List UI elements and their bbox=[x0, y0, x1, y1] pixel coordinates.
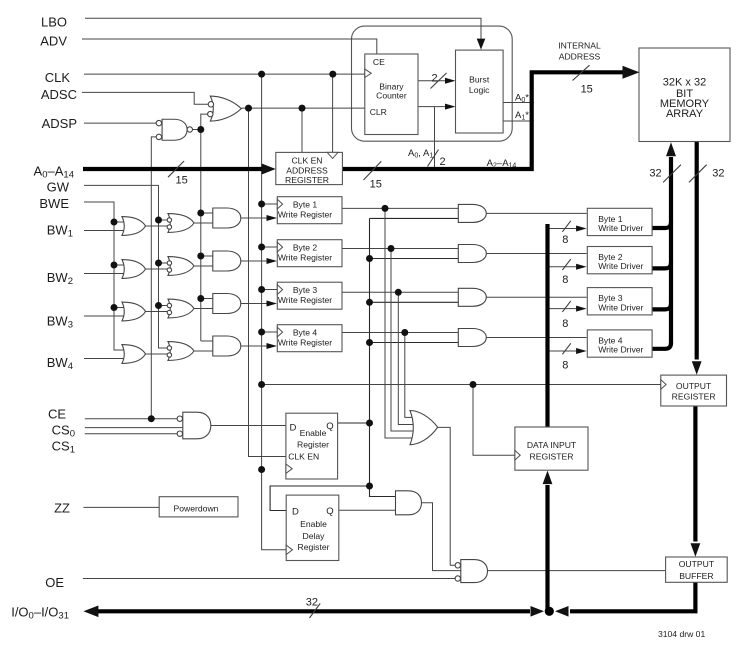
clock triangle reg2 bbox=[277, 242, 282, 252]
byte2 write register bbox=[277, 240, 342, 267]
data input register box bbox=[515, 427, 588, 470]
clock triangle address register bbox=[327, 152, 338, 158]
svg-text:Delay: Delay bbox=[303, 531, 326, 541]
wire CE/CS AND out to enable register D bbox=[211, 425, 286, 427]
wire G1 output to node, up to G2, down to byte AND column bbox=[192, 114, 207, 341]
wire BW1 bbox=[84, 230, 125, 232]
svg-text:CLK EN: CLK EN bbox=[288, 451, 319, 461]
svg-text:REGISTER: REGISTER bbox=[285, 175, 329, 185]
svg-text:Write Register: Write Register bbox=[278, 209, 332, 219]
nand-gate OE output enable bbox=[455, 560, 487, 583]
wire OR1 out row1 bbox=[145, 225, 167, 227]
bus output buffer to I/O node bbox=[570, 580, 695, 611]
wire enable branch row2 bbox=[370, 258, 459, 260]
node clken/vert bbox=[245, 105, 252, 112]
bus write data vertical to memory array bbox=[669, 157, 673, 344]
svg-text:3104 drw 01: 3104 drw 01 bbox=[658, 629, 706, 639]
svg-text:Logic: Logic bbox=[469, 85, 490, 95]
wire data tap row2 bbox=[548, 266, 579, 268]
arrowhead into output buffer bbox=[691, 543, 701, 557]
wire clock branch to data input register bbox=[473, 385, 515, 456]
arrowhead reg D r1 bbox=[267, 215, 278, 221]
arrowhead tap r2 bbox=[576, 264, 587, 270]
svg-text:Powerdown: Powerdown bbox=[174, 504, 219, 514]
wire clkgate branch row3 bbox=[201, 298, 213, 300]
node BWE r2 bbox=[111, 262, 118, 269]
and-gate write enable row2 bbox=[458, 245, 486, 263]
svg-text:Counter: Counter bbox=[376, 91, 407, 101]
wire G3 out row3 bbox=[194, 308, 213, 310]
or-gate row3 col1 bbox=[122, 302, 146, 321]
clock triangle enable register bbox=[286, 464, 292, 473]
node clkgate r3 bbox=[197, 295, 204, 302]
svg-text:Byte 2: Byte 2 bbox=[293, 242, 318, 252]
bus A0-A14 input bbox=[83, 167, 263, 171]
slash 8 r4 bbox=[562, 343, 570, 354]
arrowhead counter upper out bbox=[445, 78, 456, 84]
svg-text:Write Driver: Write Driver bbox=[598, 345, 643, 355]
bus driver1 out elbow bbox=[652, 222, 671, 228]
svg-text:REGISTER: REGISTER bbox=[530, 452, 574, 462]
wire BW4 bbox=[84, 358, 125, 360]
bus driver4 out elbow bbox=[652, 343, 671, 349]
arrowhead reg D r3 bbox=[267, 301, 278, 307]
memory array U3 bbox=[639, 48, 730, 142]
svg-text:REGISTER: REGISTER bbox=[672, 392, 716, 402]
wire G2 output to binary counter CLR bbox=[242, 107, 365, 109]
wire BW3 bbox=[84, 315, 125, 317]
wire CS0 bbox=[85, 427, 183, 429]
node ER clk bbox=[258, 466, 265, 473]
svg-text:BWE: BWE bbox=[39, 196, 69, 211]
node regclk r4 bbox=[258, 329, 265, 336]
svg-text:OUTPUT: OUTPUT bbox=[679, 559, 715, 569]
wire OR1 out row2 bbox=[145, 268, 167, 270]
wire reg4 Q bbox=[342, 332, 458, 334]
wire clock line to output/data registers bbox=[262, 384, 661, 386]
svg-text:Write Register: Write Register bbox=[278, 337, 332, 347]
svg-text:Register: Register bbox=[297, 440, 329, 450]
wire ADSC bbox=[82, 92, 208, 104]
output buffer box bbox=[666, 557, 728, 582]
svg-text:ARRAY: ARRAY bbox=[666, 108, 704, 120]
svg-text:32K x 32: 32K x 32 bbox=[663, 77, 706, 89]
svg-text:D: D bbox=[292, 507, 299, 518]
arrowhead from output buffer into node bbox=[555, 606, 569, 617]
wire data tap row4 bbox=[548, 350, 579, 352]
wire reg2 Q down to OR bbox=[391, 249, 416, 432]
or-gate big write detect bbox=[410, 411, 438, 445]
svg-text:Byte 1: Byte 1 bbox=[293, 199, 318, 209]
node en r3 bbox=[366, 299, 373, 306]
wire OR1 out row3 bbox=[145, 311, 167, 313]
svg-text:32: 32 bbox=[712, 167, 724, 179]
nor-gate row1 col2 bbox=[167, 214, 194, 233]
svg-text:Enable: Enable bbox=[300, 519, 327, 529]
wire AND2 out row4 bbox=[486, 337, 586, 339]
wire enable branch row1 bbox=[370, 217, 459, 219]
clock triangle data input register bbox=[515, 450, 520, 460]
wire A0 A1 from address bus bbox=[434, 107, 436, 169]
arrowhead reg D r4 bbox=[267, 343, 278, 349]
and-gate enable/delay bbox=[396, 491, 422, 515]
wire CE feedback up to G1 bbox=[151, 137, 156, 419]
svg-text:ADDRESS: ADDRESS bbox=[286, 165, 328, 175]
node EDR D bbox=[366, 483, 373, 490]
bus driver3 out elbow bbox=[652, 304, 671, 310]
wire data tap row3 bbox=[548, 308, 579, 310]
svg-text:8: 8 bbox=[562, 234, 568, 246]
svg-text:Write Driver: Write Driver bbox=[598, 261, 643, 271]
arrowhead into output register bbox=[692, 361, 702, 375]
wire BW2 bbox=[84, 273, 125, 275]
node G1 out bbox=[197, 126, 204, 133]
slash 15 address out bbox=[364, 161, 382, 180]
arrowhead tap r4 bbox=[576, 348, 587, 354]
svg-text:15: 15 bbox=[370, 179, 382, 191]
wire CLK bbox=[84, 73, 365, 75]
node CLK/addrclk bbox=[329, 71, 336, 78]
svg-text:15: 15 bbox=[175, 174, 187, 186]
wire AND out to reg D row3 bbox=[241, 303, 269, 305]
arrowhead LBO into burst logic bbox=[477, 39, 486, 50]
enable register box bbox=[286, 413, 338, 479]
svg-text:8: 8 bbox=[562, 318, 568, 330]
slash 32 write bbox=[663, 165, 681, 183]
wire enable branch row3 bbox=[370, 301, 459, 303]
bus data-in vertical upper bbox=[545, 224, 549, 427]
wire enable AND out bbox=[422, 503, 461, 571]
wire BWE branch row3 bbox=[114, 307, 125, 309]
node regclk r1 bbox=[258, 201, 265, 208]
byte1 write driver bbox=[587, 208, 652, 235]
node clkgate r1 bbox=[197, 210, 204, 217]
svg-text:ADSC: ADSC bbox=[41, 87, 77, 102]
slash 15 A0-A14 bbox=[168, 161, 184, 177]
wire reg clock row1 bbox=[262, 203, 277, 205]
node regclk r2 bbox=[258, 244, 265, 251]
wire G3 out row2 bbox=[194, 265, 213, 267]
node en r2 bbox=[366, 255, 373, 262]
and-gate CE/CS0/CS1 bbox=[177, 412, 211, 439]
svg-text:CE: CE bbox=[48, 407, 66, 422]
wire AND out to reg D row1 bbox=[241, 217, 269, 219]
clock triangle enable delay register bbox=[286, 545, 292, 554]
arrowhead A0-A14 into address register bbox=[262, 164, 276, 175]
svg-text:Q: Q bbox=[326, 506, 333, 517]
svg-text:15: 15 bbox=[581, 84, 593, 96]
node CE line bbox=[148, 415, 155, 422]
wire BWE branch row1 bbox=[114, 221, 125, 223]
node CLK/clkvert bbox=[258, 71, 265, 78]
svg-text:32: 32 bbox=[306, 597, 318, 609]
wire enable register Q bbox=[338, 422, 370, 424]
arrowhead I/O right into node bbox=[531, 606, 545, 617]
arrowhead tap r3 bbox=[576, 306, 587, 312]
clock triangle reg1 bbox=[277, 199, 282, 209]
wire G3 out row4 bbox=[194, 350, 213, 352]
wire BWE bbox=[84, 202, 125, 350]
binary counter U1 bbox=[365, 54, 418, 135]
svg-text:Byte 4: Byte 4 bbox=[293, 327, 318, 337]
clock triangle output register bbox=[661, 380, 666, 390]
wire counter out upper bbox=[418, 80, 449, 82]
svg-text:Burst: Burst bbox=[469, 75, 490, 85]
slash 8 r1 bbox=[562, 221, 570, 232]
wire A1* bbox=[503, 120, 534, 122]
svg-text:OE: OE bbox=[45, 575, 64, 590]
nand-gate G1 ADSP/CE bbox=[156, 119, 192, 140]
svg-text:ZZ: ZZ bbox=[54, 500, 70, 515]
byte4 write driver bbox=[587, 330, 652, 357]
svg-text:2: 2 bbox=[440, 156, 446, 168]
node BWE r1 bbox=[111, 219, 118, 226]
or-gate row2 col1 bbox=[122, 260, 146, 279]
wire clock-enable vertical to enable register CLK EN bbox=[249, 108, 286, 456]
svg-text:CE: CE bbox=[373, 57, 385, 67]
wire clock-enable to address register bbox=[301, 108, 303, 152]
slash 2 A0A1 bbox=[428, 150, 439, 167]
arrowhead write data into array bbox=[666, 142, 676, 156]
nor-gate row3 col2 bbox=[167, 299, 194, 318]
svg-text:Write Driver: Write Driver bbox=[598, 302, 643, 312]
bus I/O line bbox=[98, 609, 530, 613]
and-gate write enable row4 bbox=[458, 329, 486, 347]
wire BWE branch row2 bbox=[114, 264, 125, 266]
node regclk r3 bbox=[258, 286, 265, 293]
clock triangle binary counter bbox=[365, 69, 371, 77]
or-gate row4 col1 bbox=[122, 345, 146, 364]
slash 2 counter bbox=[431, 73, 447, 89]
address register U4 bbox=[276, 152, 343, 184]
clock triangle reg4 bbox=[277, 327, 282, 337]
svg-text:BUFFER: BUFFER bbox=[679, 571, 713, 581]
svg-text:Enable: Enable bbox=[300, 428, 327, 438]
arrowhead reg D r2 bbox=[267, 258, 278, 264]
svg-text:ADSP: ADSP bbox=[42, 116, 77, 131]
node GW r3 bbox=[155, 302, 162, 309]
node Q1 bbox=[382, 205, 389, 212]
and-gate row2 col3 bbox=[213, 251, 241, 271]
svg-text:CLK: CLK bbox=[45, 70, 71, 85]
or-gate G2 ADSC/ADSP bbox=[208, 96, 242, 121]
wire enable vertical bbox=[370, 218, 396, 496]
bus driver2 out elbow bbox=[652, 263, 671, 269]
wire reg4 Q down to OR bbox=[405, 333, 414, 418]
and-gate row4 col3 bbox=[213, 336, 241, 356]
and-gate write enable row3 bbox=[458, 288, 486, 306]
and-gate write enable row1 bbox=[458, 204, 486, 222]
and-gate row1 col3 bbox=[213, 208, 241, 228]
wire GW branch row3 bbox=[159, 305, 168, 307]
byte3 write driver bbox=[587, 288, 652, 315]
wire reg3 Q down to OR bbox=[398, 292, 416, 424]
or-gate row1 col1 bbox=[122, 217, 146, 236]
node GW r1 bbox=[155, 217, 162, 224]
wire ADSP bbox=[84, 122, 156, 124]
counter/burst enclosure (rounded) bbox=[352, 26, 513, 141]
clock triangle reg3 bbox=[277, 285, 282, 295]
bus data-in vertical lower bbox=[545, 485, 549, 611]
node I/O join bbox=[545, 607, 554, 616]
wire GW bbox=[84, 185, 167, 348]
arrowhead tap r1 bbox=[576, 226, 587, 232]
svg-text:8: 8 bbox=[562, 360, 568, 372]
node Q4 bbox=[401, 329, 408, 336]
svg-text:Byte 3: Byte 3 bbox=[293, 285, 318, 295]
wire big OR out to OE gate bbox=[438, 427, 456, 565]
slash 15 internal address bbox=[573, 65, 590, 80]
wire GW branch row2 bbox=[159, 262, 168, 264]
wire reg3 Q bbox=[342, 291, 458, 293]
wire LBO bbox=[85, 18, 481, 41]
wire clkgate branch row2 bbox=[201, 255, 213, 257]
node Q2 bbox=[388, 245, 395, 252]
powerdown box bbox=[159, 497, 238, 517]
enable delay register box bbox=[286, 495, 339, 560]
wire counter out lower bbox=[418, 106, 449, 108]
svg-text:Write Register: Write Register bbox=[278, 252, 332, 262]
wire AND2 out row3 bbox=[486, 296, 586, 298]
wire reg clock row2 bbox=[262, 246, 277, 248]
bus output register to output buffer bbox=[693, 406, 697, 542]
svg-text:Q: Q bbox=[326, 421, 333, 432]
svg-text:ADDRESS: ADDRESS bbox=[559, 51, 601, 61]
wire enable branch row4 bbox=[370, 342, 459, 344]
wire clkgate branch row4 bbox=[201, 340, 213, 342]
slash 8 r3 bbox=[562, 301, 570, 312]
bus A2-A14 and internal address bbox=[342, 72, 623, 169]
arrowhead I/O far left bbox=[83, 606, 98, 618]
svg-text:OUTPUT: OUTPUT bbox=[676, 381, 712, 391]
wire CE bbox=[85, 418, 177, 420]
byte2 write driver bbox=[587, 247, 652, 274]
svg-text:CLK EN: CLK EN bbox=[291, 155, 322, 165]
wire clkgate branch row1 bbox=[201, 212, 213, 214]
svg-text:Register: Register bbox=[298, 542, 330, 552]
node clkdist bbox=[258, 381, 265, 388]
arrowhead counter lower out bbox=[445, 104, 456, 110]
wire A0* bbox=[503, 102, 534, 104]
wire OE bbox=[83, 578, 455, 580]
wire data tap row1 bbox=[548, 228, 579, 230]
nor-gate row2 col2 bbox=[167, 257, 194, 276]
wire AND2 out row2 bbox=[486, 253, 586, 255]
wire AND out to reg D row4 bbox=[241, 345, 269, 347]
svg-text:LBO: LBO bbox=[41, 15, 67, 30]
node ER Q bbox=[366, 420, 373, 427]
wire ADV bbox=[82, 39, 377, 54]
wire reg1 Q down to OR bbox=[385, 208, 414, 438]
byte1 write register bbox=[277, 197, 342, 224]
node BWE r3 bbox=[111, 304, 118, 311]
svg-text:2: 2 bbox=[431, 73, 437, 85]
wire reg2 Q bbox=[342, 248, 458, 250]
node clken/addrreg bbox=[299, 105, 306, 112]
slash 32 I/O bbox=[310, 603, 321, 618]
output register box bbox=[661, 375, 727, 406]
wire OE gate out to output buffer bbox=[488, 570, 666, 572]
wire G3 out row1 bbox=[194, 222, 213, 224]
svg-text:8: 8 bbox=[562, 274, 568, 286]
svg-text:DATA INPUT: DATA INPUT bbox=[527, 440, 577, 450]
svg-text:Write Register: Write Register bbox=[278, 295, 332, 305]
wire AND out to reg D row2 bbox=[241, 260, 269, 262]
svg-text:Write Driver: Write Driver bbox=[598, 223, 643, 233]
node DIR clk bbox=[470, 381, 477, 388]
svg-text:GW: GW bbox=[47, 180, 70, 195]
wire enable delay D path bbox=[270, 486, 369, 511]
slash 32 read bbox=[689, 165, 707, 183]
wire reg1 Q bbox=[342, 207, 458, 209]
node clkgate r2 bbox=[197, 253, 204, 260]
svg-text:32: 32 bbox=[649, 167, 661, 179]
svg-text:INTERNAL: INTERNAL bbox=[558, 41, 601, 51]
burst logic U2 bbox=[456, 50, 504, 133]
wire ZZ bbox=[83, 506, 159, 508]
wire enable delay Q bbox=[339, 509, 396, 511]
wire reg clock row4 bbox=[262, 331, 277, 333]
arrowhead into data input register bbox=[543, 471, 553, 485]
wire CS1 bbox=[85, 433, 177, 435]
wire GW branch row1 bbox=[159, 219, 168, 221]
svg-text:D: D bbox=[290, 423, 297, 434]
wire OR1 out row4 bbox=[145, 353, 167, 355]
arrowhead internal address into array bbox=[623, 66, 640, 79]
nor-gate row4 col2 bbox=[167, 342, 194, 361]
byte4 write register bbox=[277, 325, 342, 352]
byte3 write register bbox=[277, 282, 342, 309]
wire AND2 out row1 bbox=[486, 212, 586, 214]
wire CLK to address register clock bbox=[332, 74, 334, 152]
wire CLK vertical distribution bbox=[262, 74, 287, 550]
node Q3 bbox=[395, 289, 402, 296]
node GW r2 bbox=[155, 260, 162, 267]
wire reg clock row3 bbox=[262, 289, 277, 291]
bus memory array to output register bbox=[695, 142, 699, 360]
and-gate row3 col3 bbox=[213, 294, 241, 314]
node en r4 bbox=[366, 339, 373, 346]
svg-text:CLR: CLR bbox=[370, 107, 387, 117]
slash 8 r2 bbox=[562, 259, 570, 270]
svg-text:ADV: ADV bbox=[40, 34, 67, 49]
